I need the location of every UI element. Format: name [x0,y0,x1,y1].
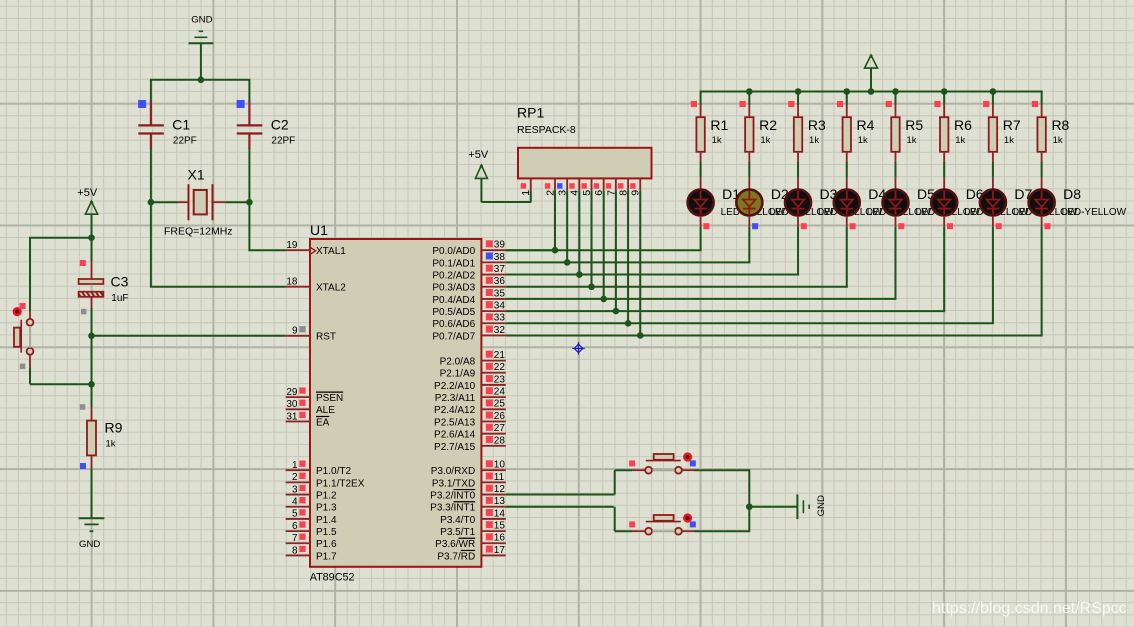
capacitor C1 22PF [138,80,197,149]
svg-text:RESPACK-8: RESPACK-8 [517,124,576,136]
svg-text:P3.4/T0: P3.4/T0 [440,515,475,526]
svg-text:XTAL1: XTAL1 [316,246,346,257]
svg-text:RP1: RP1 [517,105,544,121]
wire top rail [700,91,1043,93]
wire RP1 pin9 drop [639,191,641,336]
resistor R9 1k [80,384,123,469]
pin 37 (P0.2/AD2) right [432,264,505,282]
pin 38 (P0.1/AD1) right [432,252,505,270]
svg-text:+5V: +5V [468,149,489,161]
resistor R2 1k [740,92,778,163]
svg-text:P1.3: P1.3 [316,503,337,514]
button (reset, vertical) [13,303,34,369]
node rail R6 [941,88,948,95]
LED D4 (LED-YELLOW) [834,178,887,229]
svg-text:P3.1/TXD: P3.1/TXD [432,478,475,489]
svg-text:P2.1/A9: P2.1/A9 [440,369,476,380]
svg-text:1k: 1k [760,135,770,146]
wire P0.1 chip segment [506,261,568,263]
wire R6 to D6 [943,162,945,178]
svg-text:R4: R4 [857,117,875,133]
pin 22 (P2.1/A9) right [440,362,506,380]
wire C2 to crystal row [248,148,250,202]
svg-text:P3.3/INT1: P3.3/INT1 [430,503,475,514]
node: P0.7/RP1 junction [637,332,644,339]
wire P0.4 chip segment [506,298,605,300]
pin 15 (P3.5/T1) right [440,521,506,539]
wire D1 to P0.0 [700,227,702,251]
svg-text:GND: GND [191,15,212,26]
svg-text:R2: R2 [759,117,777,133]
resistor pack RP1 RESPACK-8 body [518,148,652,179]
svg-text:P2.3/A11: P2.3/A11 [435,393,476,404]
svg-text:GND: GND [79,539,100,550]
node: P0.1/RP1 junction [564,259,571,266]
svg-text:P3.2/INT0: P3.2/INT0 [430,490,475,501]
wire D7 to P0.6 [992,227,994,324]
svg-text:4: 4 [292,497,298,508]
wire R8 to D8 [1041,162,1043,178]
pin 10 (P3.0/RXD) right [431,460,506,478]
pin 4 RP1 [569,178,581,195]
svg-text:X1: X1 [188,167,205,183]
svg-text:10: 10 [494,460,506,471]
svg-text:36: 36 [494,276,506,287]
node: GND junction on C1-C2 bus [198,77,205,84]
ground (top, net GND) [189,15,214,44]
pin 5 RP1 [581,178,593,195]
svg-text:13: 13 [494,496,506,507]
wire R5 to D5 [894,162,896,178]
svg-text:ALE: ALE [316,405,335,416]
svg-text:7: 7 [292,533,298,544]
svg-text:22PF: 22PF [271,136,295,147]
svg-text:1k: 1k [106,438,116,449]
pin 12 (P3.2/INT0) right [430,484,506,502]
pin 21 (P2.0/A8) right [440,350,506,368]
svg-text:6: 6 [292,521,298,532]
wire D4 to P0.3 [846,227,848,287]
wire C1/X1 to XTAL2 [150,202,152,287]
svg-text:R3: R3 [808,117,826,133]
svg-text:37: 37 [494,264,506,275]
power arrow (top right rail) [865,55,878,92]
svg-text:1k: 1k [955,135,965,146]
svg-text:31: 31 [286,411,298,422]
svg-text:P0.4/AD4: P0.4/AD4 [432,295,475,306]
svg-text:C2: C2 [271,117,289,133]
node rail R3 [795,88,802,95]
wire RST to chip pin 9 [92,335,286,337]
svg-text:P3.6/WR: P3.6/WR [435,539,475,550]
wire D5 to P0.4 [894,227,896,299]
node: R9 top junction [88,381,95,388]
svg-text:21: 21 [494,350,506,361]
LED D3 (LED-YELLOW) [785,178,838,229]
svg-text:38: 38 [494,252,506,263]
LED D2 (LED-YELLOW) [736,178,789,229]
svg-text:P0.5/AD5: P0.5/AD5 [432,307,475,318]
wire P3.3/INT1 to button 2 [506,506,614,508]
wire R1 to D1 [700,162,702,178]
origin marker (blue crosshair) [572,342,584,354]
svg-text:19: 19 [286,240,298,251]
svg-text:P1.7: P1.7 [316,551,337,562]
svg-text:24: 24 [494,387,506,398]
wire buttons to gnd column [748,469,750,532]
wire P0.2 chip segment [506,274,581,276]
resistor R5 1k [886,92,924,163]
svg-text:P1.2: P1.2 [316,490,337,501]
pin 28 (P2.7/A15) right [434,435,506,453]
svg-text:P0.6/AD6: P0.6/AD6 [432,319,475,330]
svg-text:R7: R7 [1003,117,1021,133]
svg-text:R8: R8 [1051,117,1069,133]
wire RP1 pin7 drop [615,191,617,312]
svg-text:27: 27 [494,423,506,434]
svg-text:PSEN: PSEN [316,393,343,404]
wire C1-C2 top bus [150,79,251,81]
svg-text:https://blog.csdn.net/RSpcc: https://blog.csdn.net/RSpcc [932,600,1127,617]
pin 1 RP1 [520,178,532,195]
node: +5V junction [88,234,95,241]
svg-text:P0.7/AD7: P0.7/AD7 [432,331,475,342]
node: crystal right junction [246,199,253,206]
node rail R5 [892,88,899,95]
wire P0.7 chip segment [506,334,641,336]
pin 32 (P0.7/AD7) right [432,325,505,343]
wire D6 to P0.5 [943,227,945,312]
wire RP1 pin1 to +5V [481,201,531,203]
pin 3 (P1.2) left [286,484,337,501]
LED D5 (LED-YELLOW) [882,178,935,229]
pin 18 (XTAL2) left [286,277,347,294]
wire D8 to P0.7 [1041,227,1043,336]
svg-text:30: 30 [286,399,298,410]
svg-text:P2.4/A12: P2.4/A12 [434,405,476,416]
power +5V (left) [77,187,98,238]
wire D3 to P0.2 [797,227,799,275]
svg-text:RST: RST [316,332,336,343]
resistor R3 1k [788,92,826,163]
wire junction to ground [749,506,797,508]
wire gnd to C1/C2 bus [200,43,202,80]
svg-text:C3: C3 [111,273,129,289]
node: rail/power junction [868,88,875,95]
svg-text:XTAL2: XTAL2 [316,283,346,294]
svg-text:18: 18 [286,277,298,288]
pin 9 RP1 [630,178,642,195]
wire RP1 pin2 drop [554,191,556,251]
LED D7 (LED-YELLOW) [980,178,1033,229]
wire P0.3 chip segment [506,286,593,288]
svg-text:5: 5 [292,509,298,520]
resistor R6 1k [934,92,972,163]
svg-text:P0.3/AD3: P0.3/AD3 [432,283,475,294]
svg-text:14: 14 [494,508,506,519]
svg-text:33: 33 [494,313,506,324]
svg-text:R9: R9 [105,420,123,436]
svg-text:+5V: +5V [77,187,98,199]
pin 34 (P0.5/AD5) right [432,301,505,319]
button K2 (horizontal) [615,513,750,534]
pin 2 RP1 [544,178,556,195]
svg-text:LED-YELLOW: LED-YELLOW [1062,207,1127,218]
svg-text:P0.1/AD1: P0.1/AD1 [432,258,475,269]
svg-text:22PF: 22PF [173,136,197,147]
node rail R2 [746,88,753,95]
pin 29 (PSEN) left [286,387,344,404]
pin 13 (P3.3/INT1) right [430,496,506,514]
wire RP1 pin4 drop [578,191,580,275]
svg-text:25: 25 [494,399,506,410]
svg-text:26: 26 [494,411,506,422]
wire +5V junction to button column [29,237,92,239]
pin 30 (ALE) left [286,399,336,416]
svg-text:R5: R5 [905,117,923,133]
crystal X1 FREQ=12MHz [151,167,250,238]
svg-text:11: 11 [494,472,505,483]
node: RST junction [88,333,95,340]
svg-text:U1: U1 [310,222,328,238]
wire C1 to crystal row [150,148,152,202]
op: microcontroller U1 AT89C52 body [310,239,481,567]
wire button bottom to R9 column [29,367,31,384]
wire R7 to D7 [992,162,994,178]
pin 26 (P2.5/A13) right [434,411,506,429]
pin 5 (P1.4) left [286,509,337,526]
node: P0.4/RP1 junction [600,296,607,303]
svg-text:P3.0/RXD: P3.0/RXD [431,466,475,477]
svg-text:39: 39 [494,240,506,251]
svg-text:22: 22 [494,362,506,373]
power +5V (RP1) [468,149,489,202]
resistor R1 1k [691,92,729,163]
svg-text:1k: 1k [809,135,819,146]
svg-text:P2.2/A10: P2.2/A10 [434,381,476,392]
svg-text:35: 35 [494,288,506,299]
svg-text:1uF: 1uF [111,293,128,304]
pin 24 (P2.3/A11) right [435,387,506,405]
resistor R4 1k [837,92,875,163]
node: P0.6/RP1 junction [625,320,632,327]
wire RP1 pin6 drop [603,191,605,299]
resistor R7 1k [983,92,1021,163]
svg-text:1k: 1k [906,135,916,146]
svg-text:23: 23 [494,374,506,385]
pin 4 (P1.3) left [286,497,337,514]
capacitor C3 1uF (polarized) [77,238,129,336]
node rail R4 [843,88,850,95]
LED D8 (LED-YELLOW) [1029,178,1082,229]
svg-text:12: 12 [494,484,506,495]
wire P0.5 chip segment [506,310,617,312]
svg-text:P2.7/A15: P2.7/A15 [434,442,476,453]
svg-text:16: 16 [494,533,506,544]
pin 9 (RST) left [286,326,336,343]
pin 16 (P3.6/WR) right [435,533,506,551]
svg-text:P0.0/AD0: P0.0/AD0 [432,246,475,257]
pin 27 (P2.6/A14) right [434,423,506,441]
pin 17 (P3.7/RD) right [437,545,505,563]
svg-text:P3.7/RD: P3.7/RD [437,551,475,562]
wire RP1 pin8 drop [627,191,629,324]
svg-text:8: 8 [292,545,298,556]
svg-text:R1: R1 [710,117,728,133]
pin 1 (P1.0/T2) left [286,460,352,477]
svg-text:32: 32 [494,325,506,336]
svg-text:P1.1/T2EX: P1.1/T2EX [316,478,365,489]
wire D2 to P0.1 [748,227,750,263]
wire RST junction down to R9 [91,336,93,385]
wire R4 to D4 [846,162,848,178]
wire C2/X1 to XTAL1 [248,202,250,250]
capacitor C2 22PF [237,80,296,149]
pin 3 RP1 [557,178,569,195]
wire R9 to ground [91,468,93,518]
pin 7 RP1 [605,178,617,195]
svg-text:1: 1 [292,460,298,471]
svg-text:P1.4: P1.4 [316,515,337,526]
svg-text:EA: EA [316,417,330,428]
svg-text:3: 3 [292,484,298,495]
pin 8 RP1 [617,178,629,195]
pin 2 (P1.1/T2EX) left [286,472,365,489]
node: P0.0/RP1 junction [552,247,559,254]
svg-text:P1.5: P1.5 [316,527,337,538]
LED D1 (LED-YELLOW) [688,178,741,229]
pin 25 (P2.4/A12) right [434,399,506,417]
pin 23 (P2.2/A10) right [434,374,506,392]
svg-text:FREQ=12MHz: FREQ=12MHz [164,226,233,238]
wire R3 to D3 [797,162,799,178]
pin 6 (P1.5) left [286,521,337,538]
ground (right, rotated) [797,494,827,519]
node: P0.5/RP1 junction [613,308,620,315]
svg-text:2: 2 [292,472,298,483]
svg-text:29: 29 [286,387,298,398]
node: P0.2/RP1 junction [576,271,583,278]
node: button gnd junction [746,503,753,510]
pin 36 (P0.3/AD3) right [432,276,505,294]
svg-text:P2.5/A13: P2.5/A13 [434,417,476,428]
resistor R8 1k [1032,92,1070,163]
wire R2 to D2 [748,162,750,178]
svg-text:28: 28 [494,435,506,446]
wire RP1 pin5 drop [591,191,593,287]
svg-text:15: 15 [494,521,506,532]
svg-text:P2.0/A8: P2.0/A8 [440,357,476,368]
pin 39 (P0.0/AD0) right [432,240,505,258]
button K1 (horizontal) [615,452,750,473]
pin 14 (P3.4/T0) right [440,508,506,526]
svg-text:D8: D8 [1063,186,1081,202]
pin 19 (XTAL1) left [286,240,347,257]
wire P3.2/INT0 to button 1 [506,494,615,496]
svg-text:R6: R6 [954,117,972,133]
pin XTAL1 clock chevron [311,248,316,254]
ground (bottom left) [79,518,105,550]
svg-text:P1.6: P1.6 [316,539,337,550]
node rail R7 [990,88,997,95]
pin 35 (P0.4/AD4) right [432,288,505,306]
pin 31 (EA) left [286,411,330,428]
svg-text:P3.5/T1: P3.5/T1 [440,527,475,538]
wire RP1 pin3 drop [566,191,568,263]
node: crystal left junction [148,199,155,206]
svg-text:AT89C52: AT89C52 [310,572,355,584]
pin 7 (P1.6) left [286,533,337,550]
pin 6 RP1 [593,178,605,195]
pin 33 (P0.6/AD6) right [432,313,505,331]
pin 11 (P3.1/TXD) right [432,472,506,490]
wire P0.6 chip segment [506,322,629,324]
svg-text:1k: 1k [1004,135,1014,146]
svg-text:1k: 1k [858,135,868,146]
svg-text:P0.2/AD2: P0.2/AD2 [432,270,475,281]
svg-text:34: 34 [494,301,506,312]
svg-text:1k: 1k [712,135,722,146]
node: P0.3/RP1 junction [588,283,595,290]
svg-text:C1: C1 [172,117,190,133]
pin 8 (P1.7) left [286,545,337,562]
svg-text:9: 9 [292,326,298,337]
svg-text:P1.0/T2: P1.0/T2 [316,466,351,477]
svg-text:P2.6/A14: P2.6/A14 [434,430,476,441]
svg-text:1k: 1k [1053,135,1063,146]
svg-text:17: 17 [494,545,506,556]
LED D6 (LED-YELLOW) [931,178,984,229]
wire P0.0 chip segment [506,249,556,251]
svg-text:GND: GND [816,495,827,516]
